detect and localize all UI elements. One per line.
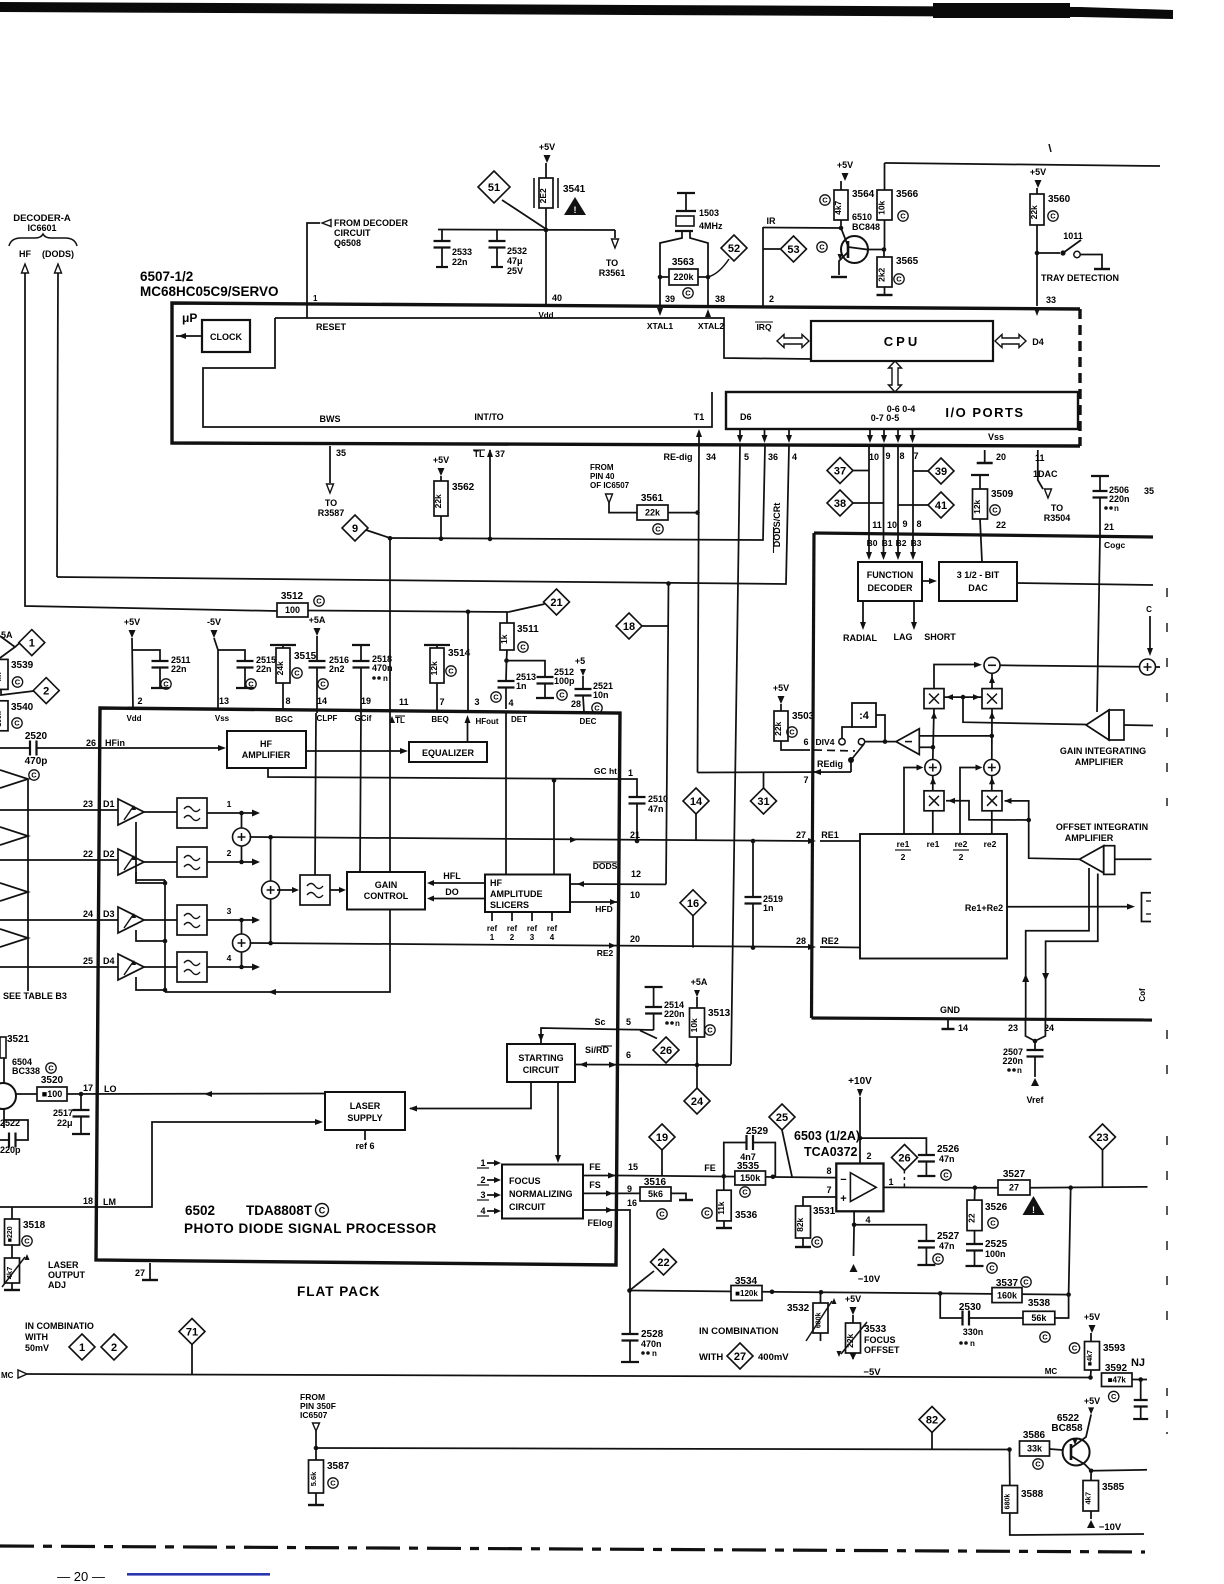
switch REdig/DIV4	[839, 739, 845, 745]
capacitor 2517 22u	[80, 1094, 82, 1110]
svg-text:3585: 3585	[1102, 1482, 1125, 1493]
svg-text:8: 8	[916, 519, 921, 529]
svg-text:C: C	[1042, 1333, 1048, 1342]
svg-text:GND: GND	[940, 1005, 961, 1015]
svg-text:2: 2	[901, 852, 906, 862]
node diamond 39	[928, 458, 954, 484]
svg-text:16: 16	[687, 898, 699, 910]
svg-text:3: 3	[474, 697, 479, 707]
svg-text:470p: 470p	[25, 756, 48, 767]
capacitor 2511 22n	[152, 661, 169, 668]
svg-text:20: 20	[996, 452, 1006, 462]
svg-text:2: 2	[227, 848, 232, 858]
svg-text:FS: FS	[589, 1180, 601, 1190]
wire DAC output	[1017, 583, 1153, 585]
svg-text:C: C	[1050, 212, 1056, 221]
svg-text:1503: 1503	[699, 208, 719, 218]
capacitor 2514 220n	[632, 1029, 654, 1031]
svg-text:IC6507: IC6507	[300, 1410, 328, 1420]
svg-text:■120k: ■120k	[735, 1289, 758, 1298]
svg-text:14: 14	[958, 1023, 968, 1033]
svg-text:■47k: ■47k	[1108, 1376, 1127, 1385]
svg-text:3593: 3593	[1103, 1343, 1126, 1354]
svg-text:D2: D2	[103, 849, 115, 859]
svg-text:ADJ: ADJ	[48, 1280, 66, 1290]
svg-text:AMPLITUDE: AMPLITUDE	[490, 889, 543, 899]
svg-text:4MHz: 4MHz	[699, 221, 723, 231]
svg-text:71: 71	[186, 1326, 198, 1338]
capacitor 2530 330n / resistor 3538 56k	[940, 1293, 962, 1318]
blue pen line	[127, 1573, 270, 1576]
svg-text:35: 35	[336, 448, 346, 458]
svg-text:19: 19	[656, 1132, 668, 1144]
bus arrow IRQ-CPU	[777, 335, 809, 348]
svg-text:38: 38	[715, 294, 725, 304]
node diamond 14	[683, 788, 709, 814]
svg-text:R3504: R3504	[1044, 513, 1071, 523]
svg-text:47μ: 47μ	[507, 256, 523, 266]
+5V rail top	[438, 229, 615, 232]
photodiode input lines D1-D4	[0, 809, 118, 811]
svg-text:n: n	[383, 674, 388, 683]
svg-text:14: 14	[317, 696, 327, 706]
svg-text:2: 2	[43, 686, 49, 698]
svg-text:INT/TO: INT/TO	[474, 412, 503, 422]
svg-text:3520: 3520	[41, 1075, 64, 1086]
svg-text:11: 11	[399, 697, 409, 707]
svg-text:C: C	[822, 196, 828, 205]
svg-text:2: 2	[959, 852, 964, 862]
wire uP pin 4 down / long DODS-CRt line	[57, 446, 789, 584]
svg-text:6502: 6502	[185, 1203, 215, 1218]
svg-text:25V: 25V	[507, 266, 523, 276]
svg-text:7: 7	[803, 775, 808, 785]
svg-text:3564: 3564	[852, 189, 875, 200]
svg-text:22μ: 22μ	[57, 1118, 73, 1128]
svg-text:−: −	[840, 1174, 846, 1186]
svg-text:19: 19	[361, 696, 371, 706]
svg-text:100p: 100p	[554, 676, 575, 686]
svg-text:■100: ■100	[42, 1089, 62, 1099]
svg-text:+5A: +5A	[691, 977, 708, 987]
svg-text:470n: 470n	[641, 1339, 662, 1349]
svg-text:HFin: HFin	[105, 738, 125, 748]
svg-text:C: C	[320, 680, 326, 689]
svg-text:ref: ref	[527, 924, 538, 933]
svg-text:2: 2	[480, 1175, 485, 1185]
node diamond 41	[928, 492, 954, 518]
summing node 2	[207, 919, 253, 921]
arrow TO R3561	[614, 230, 616, 238]
svg-text:OF IC6507: OF IC6507	[590, 481, 630, 490]
filter boxes after photodiode amps	[177, 798, 207, 828]
svg-text:C: C	[1111, 1392, 1117, 1401]
node diamond 22	[651, 1249, 677, 1275]
svg-text:22: 22	[967, 1213, 977, 1223]
resistor 3531 82k	[803, 1197, 836, 1206]
svg-text:41: 41	[935, 500, 947, 512]
svg-text:ref: ref	[487, 924, 498, 933]
svg-text:3587: 3587	[327, 1461, 350, 1472]
svg-text:12k: 12k	[972, 499, 982, 513]
svg-text:DET: DET	[511, 715, 527, 724]
svg-text:3532: 3532	[787, 1303, 810, 1314]
svg-text:2517: 2517	[53, 1108, 73, 1118]
resistor 3565 2k2	[883, 250, 885, 258]
svg-text:9: 9	[902, 519, 907, 529]
svg-text:150k: 150k	[740, 1173, 761, 1183]
svg-text:36: 36	[768, 452, 778, 462]
svg-text:— 20 —: — 20 —	[57, 1569, 105, 1584]
wire Cogc to gain amp	[1097, 537, 1100, 712]
svg-text:SUPPLY: SUPPLY	[347, 1113, 382, 1123]
page bottom dash-dot rule	[0, 1546, 1145, 1552]
svg-text:+5V: +5V	[1084, 1312, 1100, 1322]
svg-text:B3: B3	[911, 538, 922, 548]
wire DODS vertical to long DODS/CRt line	[57, 273, 58, 577]
svg-text:HFL: HFL	[443, 871, 461, 881]
svg-text:FOCUS: FOCUS	[509, 1176, 541, 1186]
svg-text:OUTPUT: OUTPUT	[48, 1270, 86, 1280]
svg-text:STARTING: STARTING	[518, 1053, 563, 1063]
warning triangle	[1023, 1196, 1045, 1215]
svg-text:22k: 22k	[773, 721, 783, 735]
svg-text:C: C	[935, 1255, 941, 1264]
pin 27 ground	[149, 1263, 151, 1279]
svg-text:3533: 3533	[864, 1324, 887, 1335]
node diamond 16	[680, 890, 706, 916]
wire M2 to minus circle	[991, 673, 993, 688]
capacitor 2519 1n between RE1 RE2	[752, 841, 754, 897]
capacitor 2532 47u 25V	[496, 230, 498, 242]
svg-text:1DAC: 1DAC	[1033, 469, 1058, 479]
svg-text:3563: 3563	[672, 257, 695, 268]
svg-text:TL: TL	[395, 716, 405, 725]
svg-text:4: 4	[865, 1215, 870, 1225]
svg-text:C: C	[520, 643, 526, 652]
node diamond 38	[827, 490, 853, 516]
svg-text:1: 1	[29, 638, 35, 650]
svg-text:6: 6	[626, 1050, 631, 1060]
svg-text:GC ht: GC ht	[594, 766, 617, 776]
svg-text:TDA8808T: TDA8808T	[246, 1203, 313, 1218]
resistor 3532 680k variable	[820, 1292, 822, 1303]
transistor 6510 BC848	[841, 236, 868, 263]
servo block top edge	[814, 533, 1153, 537]
servo inner box	[860, 834, 1007, 959]
svg-text:27: 27	[796, 830, 806, 840]
svg-text:LAG: LAG	[894, 632, 913, 642]
node diamond 53	[763, 248, 780, 250]
svg-text:1011: 1011	[1063, 231, 1083, 241]
svg-text:47n: 47n	[939, 1241, 955, 1251]
svg-text:3539: 3539	[11, 660, 34, 671]
wire FE pin 15	[583, 1175, 620, 1177]
svg-text:9: 9	[627, 1184, 632, 1194]
microprocessor right edge dashed	[1078, 309, 1081, 446]
svg-text:Vss: Vss	[988, 432, 1004, 442]
resistor 3514 12k pin 7 BEQ	[424, 644, 450, 646]
node diamond 51	[478, 171, 510, 203]
svg-text:22: 22	[657, 1257, 669, 1269]
brace under DECODER-A	[9, 234, 77, 246]
summing node 1	[207, 812, 253, 814]
svg-text:BEQ: BEQ	[431, 715, 448, 724]
microprocessor 6507 block outline	[172, 303, 1080, 446]
svg-text:C: C	[163, 680, 169, 689]
svg-text:HFD: HFD	[595, 904, 612, 914]
decoder output arrows RADIAL LAG	[862, 601, 864, 626]
svg-text:TO: TO	[1051, 503, 1063, 513]
svg-text:C: C	[294, 669, 300, 678]
svg-text:LASER: LASER	[350, 1101, 381, 1111]
capacitor 2529 4n7	[724, 1143, 746, 1177]
svg-text:9: 9	[352, 523, 358, 535]
svg-text:21: 21	[1104, 522, 1114, 532]
svg-text:B2: B2	[896, 538, 907, 548]
svg-text:3527: 3527	[1003, 1169, 1026, 1180]
wires offset amp to GND pins 23 24	[1026, 868, 1089, 1018]
svg-text:C: C	[943, 1171, 949, 1180]
resistor 3587 5.6k	[315, 1448, 317, 1460]
resistor 3540 100k	[0, 701, 8, 731]
svg-text:24k: 24k	[275, 661, 285, 675]
node diamond 9	[342, 515, 368, 541]
svg-text:3509: 3509	[991, 489, 1014, 500]
node diamond 2	[101, 1334, 127, 1360]
page cut dashed marks	[1166, 588, 1168, 806]
node diamond 18	[616, 613, 642, 639]
svg-text:3562: 3562	[452, 482, 475, 493]
svg-text:220n: 220n	[1109, 494, 1130, 504]
servo block left edge	[812, 533, 815, 1018]
svg-text:24: 24	[691, 1096, 704, 1108]
svg-text:34: 34	[706, 452, 716, 462]
summing node 3 middle	[270, 837, 272, 881]
svg-text:2n2: 2n2	[329, 664, 345, 674]
svg-text:FUNCTION: FUNCTION	[867, 570, 914, 580]
svg-text:D4: D4	[1032, 337, 1044, 347]
capacitor 2525 100n	[974, 1231, 976, 1244]
comparator	[896, 729, 919, 755]
svg-text:24: 24	[83, 909, 93, 919]
svg-text:RE-dig: RE-dig	[664, 452, 693, 462]
svg-text:FOCUS: FOCUS	[864, 1335, 896, 1345]
svg-text:WITH: WITH	[25, 1332, 48, 1342]
svg-text:27: 27	[1009, 1183, 1019, 1193]
node diamond 26	[640, 1031, 657, 1039]
svg-text:4: 4	[792, 452, 797, 462]
svg-text:C: C	[789, 728, 795, 737]
wire pin 4 / -10V	[853, 1211, 855, 1225]
svg-text:RE2: RE2	[597, 948, 614, 958]
svg-text:50mV: 50mV	[25, 1343, 49, 1353]
svg-text:C: C	[814, 1238, 820, 1247]
svg-text:4: 4	[227, 953, 232, 963]
svg-text:27: 27	[734, 1351, 746, 1363]
resistor 3527 27	[973, 1185, 978, 1190]
wire DODS drop to slicers	[666, 584, 669, 885]
svg-text::4: :4	[859, 710, 870, 722]
svg-text:MC: MC	[1045, 1367, 1058, 1376]
svg-text:38: 38	[834, 498, 846, 510]
wire starting circuit to focus normalizing	[557, 1082, 559, 1159]
svg-text:1: 1	[480, 1158, 485, 1168]
svg-text:IN COMBINATION: IN COMBINATION	[699, 1326, 779, 1337]
gain control feedback	[165, 910, 390, 993]
svg-text:C: C	[448, 667, 454, 676]
svg-text:C: C	[685, 289, 691, 298]
svg-text:1: 1	[628, 768, 633, 778]
svg-text:re2: re2	[984, 839, 997, 849]
node diamond 1	[19, 630, 45, 656]
svg-text:22: 22	[996, 520, 1006, 530]
svg-text:n: n	[1017, 1066, 1022, 1075]
resistor 3526 22	[974, 1188, 976, 1200]
svg-text:220n: 220n	[1002, 1056, 1023, 1066]
capacitor 2528 470n	[629, 1291, 631, 1335]
svg-text:EQUALIZER: EQUALIZER	[422, 748, 475, 758]
bus wires B0-B3	[868, 446, 870, 557]
svg-text:10n: 10n	[593, 690, 609, 700]
svg-text:22k: 22k	[433, 494, 443, 508]
svg-text:ref: ref	[547, 924, 558, 933]
potentiometer 3521 laser output adj 4k7	[5, 1258, 20, 1283]
svg-text:5: 5	[744, 452, 749, 462]
svg-text:1n: 1n	[763, 903, 774, 913]
svg-text:n: n	[970, 1339, 975, 1348]
photodiode amp D1	[118, 799, 144, 825]
wire GCht from HF amp to pin 1	[268, 768, 620, 779]
svg-text:22: 22	[83, 849, 93, 859]
svg-text:Cof: Cof	[1138, 988, 1147, 1002]
node diamond 19	[649, 1124, 675, 1150]
svg-text:-5V: -5V	[207, 617, 221, 627]
svg-text:3526: 3526	[985, 1202, 1008, 1213]
svg-text:6510: 6510	[852, 212, 872, 222]
svg-text:+5V: +5V	[433, 455, 449, 465]
svg-text:TO: TO	[606, 258, 618, 268]
svg-text:13: 13	[219, 696, 229, 706]
svg-text:37: 37	[834, 465, 846, 477]
3 1/2-BIT DAC box	[939, 562, 1017, 601]
minus summing circle	[934, 665, 979, 689]
svg-text:Vref: Vref	[1026, 1095, 1044, 1105]
wire uP pin 34 down to REdig	[698, 446, 700, 773]
svg-text:2: 2	[866, 1151, 871, 1161]
svg-text:C: C	[15, 678, 21, 687]
capacitor 2513 1n	[505, 661, 508, 681]
op-amp 6503	[836, 1164, 883, 1212]
svg-text:REdig: REdig	[817, 759, 843, 769]
svg-text:C: C	[248, 680, 254, 689]
svg-text:10k: 10k	[689, 1018, 699, 1032]
svg-text:26: 26	[86, 738, 96, 748]
svg-text:BWS: BWS	[320, 414, 341, 424]
svg-text:1: 1	[490, 933, 495, 942]
svg-text:ref: ref	[507, 924, 518, 933]
svg-text:2E2: 2E2	[538, 188, 548, 203]
svg-text:RE1: RE1	[821, 830, 839, 840]
resistor 3585 4k7	[1090, 1471, 1092, 1481]
I/O port pin arrows down	[739, 429, 741, 440]
HF AMPLIFIER box	[227, 731, 306, 768]
warning triangle	[564, 197, 586, 215]
svg-text:7: 7	[826, 1185, 831, 1195]
svg-text:3565: 3565	[896, 256, 919, 267]
svg-text:C: C	[1023, 1278, 1029, 1287]
svg-text:DO: DO	[445, 887, 459, 897]
svg-text:16: 16	[627, 1198, 637, 1208]
svg-text:D4: D4	[103, 956, 115, 966]
svg-text:I/O PORTS: I/O PORTS	[945, 405, 1024, 420]
crystal 1503 4MHz	[677, 192, 695, 194]
photodiode amp D3	[118, 907, 144, 933]
svg-text:Cogc: Cogc	[1104, 540, 1126, 550]
svg-text:Re1+Re2: Re1+Re2	[965, 903, 1003, 913]
multiplier M1	[924, 689, 944, 709]
svg-text:23: 23	[1008, 1023, 1018, 1033]
svg-text:+5V: +5V	[773, 683, 789, 693]
svg-text:53: 53	[787, 244, 799, 256]
svg-text:IC6601: IC6601	[27, 223, 56, 233]
svg-text:6503 (1/2A): 6503 (1/2A)	[794, 1129, 860, 1143]
svg-text:C: C	[990, 1219, 996, 1228]
wire M2 bottom / comparator input	[991, 709, 993, 760]
svg-text:GCif: GCif	[355, 714, 372, 723]
wire TL / pin 37 up into uP	[489, 450, 491, 539]
node diamond 31	[751, 788, 777, 814]
svg-text:C: C	[493, 693, 499, 702]
svg-text:+: +	[840, 1193, 846, 1205]
svg-text:3588: 3588	[1021, 1489, 1044, 1500]
svg-text:21: 21	[550, 597, 562, 609]
wire CLPF internal	[315, 713, 316, 875]
svg-text:37: 37	[495, 449, 505, 459]
svg-text:28: 28	[571, 699, 581, 709]
node diamond 82	[919, 1407, 945, 1433]
svg-text:TRAY DETECTION: TRAY DETECTION	[1041, 273, 1119, 283]
svg-text:4: 4	[480, 1206, 485, 1216]
svg-text:2520: 2520	[25, 731, 48, 742]
plus circle P2	[984, 760, 1000, 776]
svg-text:TO: TO	[325, 498, 337, 508]
svg-text:25: 25	[776, 1112, 788, 1124]
svg-text:CLOCK: CLOCK	[210, 332, 242, 342]
svg-text:22n: 22n	[256, 664, 272, 674]
svg-text:1: 1	[79, 1342, 85, 1354]
svg-text:18: 18	[83, 1196, 93, 1206]
wire offset loop to M3 M4	[946, 801, 1029, 820]
output bracket box at page edge	[1142, 893, 1152, 922]
svg-text:CIRCUIT: CIRCUIT	[523, 1065, 560, 1075]
svg-text:3538: 3538	[1028, 1298, 1051, 1309]
svg-text:14: 14	[690, 796, 703, 808]
pin 40 Vdd wire	[545, 230, 547, 306]
svg-text:HF: HF	[19, 249, 31, 259]
svg-text:+5V: +5V	[1084, 1396, 1100, 1406]
svg-text:26: 26	[660, 1045, 672, 1057]
svg-text:27: 27	[135, 1268, 145, 1278]
svg-text:BC848: BC848	[852, 222, 880, 232]
pin 20 Vss ground	[984, 450, 986, 462]
svg-text:μP: μP	[182, 311, 197, 325]
svg-text:SLICERS: SLICERS	[490, 900, 529, 910]
svg-text:+5V: +5V	[837, 160, 853, 170]
svg-text:+5V: +5V	[124, 617, 140, 627]
svg-text:51: 51	[488, 182, 500, 194]
wire HFD	[570, 901, 620, 903]
